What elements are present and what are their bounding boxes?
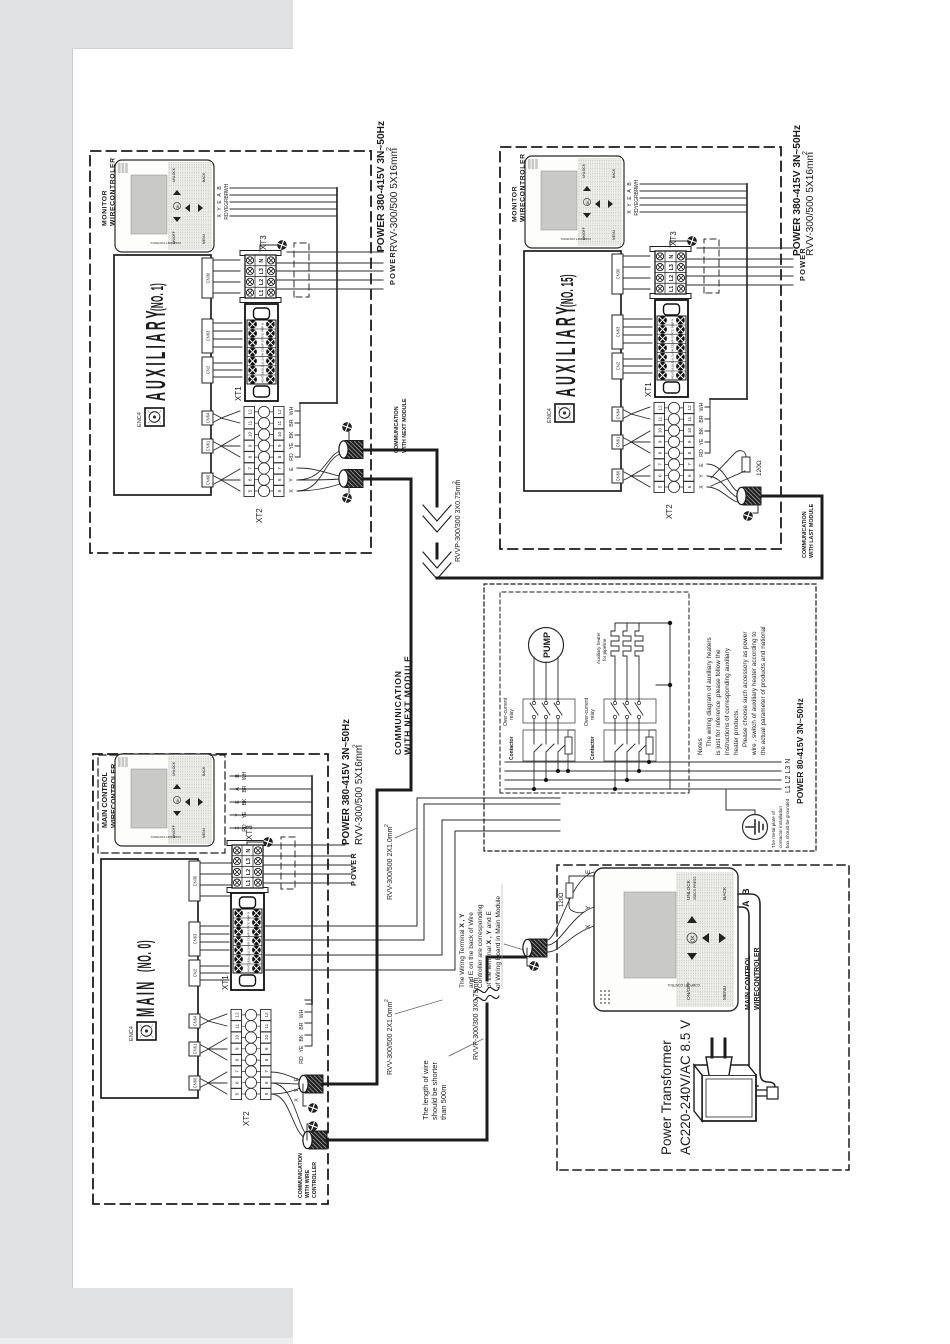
- contact circles relay 1: [532, 701, 559, 718]
- wires: A/B bus from controller to transformer: [738, 894, 775, 1088]
- svg-text:120Ω: 120Ω: [559, 892, 565, 907]
- wires: X Y E into wire controller: [548, 872, 594, 952]
- shielded comm cables W1 W2 (AUX1) with X/Y/E wires: [297, 451, 340, 491]
- svg-text:heater products.: heater products.: [733, 709, 740, 755]
- shielded comm cables W3 W4 (MAIN): [299, 1075, 323, 1093]
- earth ground symbol PE: [726, 789, 755, 814]
- svg-text:B: B: [235, 774, 241, 778]
- svg-text:BK: BK: [299, 1034, 305, 1041]
- svg-text:wire , switch of auxiliary: wire , switch of auxiliary heater accord…: [751, 631, 758, 756]
- svg-text:COMMUNICATION: COMMUNICATION: [802, 511, 808, 558]
- svg-text:POWER 380-415V 3N~50Hz: POWER 380-415V 3N~50Hz: [341, 719, 352, 845]
- svg-text:RVV-300/500 2X1.0mm: RVV-300/500 2X1.0mm: [387, 1001, 394, 1075]
- terminating resistor R1 120 ohm (AUX15): [711, 451, 763, 486]
- svg-text:120Ω: 120Ω: [756, 460, 763, 476]
- svg-text:MENU: MENU: [722, 985, 728, 1000]
- main board: [101, 859, 198, 1098]
- svg-text:2: 2: [386, 147, 393, 151]
- svg-text:and E on the back of Wire: and E on the back of Wire: [468, 912, 475, 988]
- pump motor M1: [529, 628, 564, 663]
- svg-text:is just for reference ,please: is just for reference ,please follow the: [715, 649, 722, 755]
- svg-text:Please choose such accesso: Please choose such accessory as power: [742, 631, 749, 747]
- svg-text:CONTROLLER: CONTROLLER: [312, 1162, 318, 1198]
- svg-text:X: X: [235, 826, 241, 830]
- svg-text:XT1: XT1: [221, 975, 230, 990]
- svg-text:BK: BK: [242, 798, 248, 805]
- svg-text:The Wiring Terminal X , Y: The Wiring Terminal X , Y: [459, 913, 466, 988]
- svg-text:Notes: Notes: [697, 738, 704, 755]
- outer dashed box: [484, 584, 816, 851]
- shielded comm cable W5 (AUX15) with X/Y/E wires: [707, 464, 737, 502]
- svg-text:than 500m: than 500m: [439, 1085, 448, 1120]
- svg-text:YE: YE: [242, 811, 248, 818]
- svg-text:UNLOCK: UNLOCK: [686, 879, 692, 900]
- svg-text:WITH WIRE: WITH WIRE: [305, 1169, 311, 1198]
- svg-text:A: A: [741, 900, 751, 907]
- svg-text:COMMUNICATION: COMMUNICATION: [394, 406, 400, 453]
- auxiliary unit NO.15 dashed enclosure and internals: [500, 147, 807, 549]
- ground note: [771, 798, 790, 848]
- wire: comm trunk MAIN to wire controller: [327, 957, 525, 1140]
- svg-text:POWER 380-415V 3N~50Hz: POWER 380-415V 3N~50Hz: [376, 121, 387, 252]
- svg-text:BR: BR: [242, 785, 248, 792]
- svg-text:(NO. 1): (NO. 1): [146, 283, 167, 311]
- wiring terminal note: [459, 884, 502, 988]
- svg-text:the actual parameter of prod: the actual parameter of products and nat…: [760, 626, 767, 755]
- svg-text:2: 2: [384, 824, 390, 827]
- svg-text:of Wiring Board in Main Module: of Wiring Board in Main Module: [495, 896, 502, 988]
- svg-text:CN64: CN64: [193, 1015, 198, 1026]
- wires: L1 L2 L3 N power leads from XT3 (MAIN): [263, 845, 352, 883]
- svg-text:E: E: [235, 800, 241, 804]
- svg-text:2: 2: [452, 481, 458, 484]
- cable break symbols on AUX1-AUX15 comm line: [423, 505, 451, 579]
- svg-text:WH: WH: [299, 1009, 305, 1018]
- dashed enclosure: [557, 865, 849, 1170]
- svg-text:Controller are corresponding: Controller are corresponding: [477, 904, 484, 988]
- svg-text:3SECS PRESS: 3SECS PRESS: [693, 876, 697, 900]
- svg-text:X: X: [585, 924, 592, 929]
- svg-text:OK: OK: [691, 935, 697, 943]
- svg-text:RVV-300/500 2X1.0mm: RVV-300/500 2X1.0mm: [387, 826, 394, 900]
- auxiliary heater elements EH1 EH2 EH3: [611, 627, 643, 660]
- svg-text:XT3: XT3: [245, 825, 254, 840]
- svg-text:COMFORT CONTROL: COMFORT CONTROL: [667, 983, 700, 987]
- fan wires: [200, 863, 232, 1094]
- wires: XT1 control outputs to contactor box: [264, 798, 560, 970]
- svg-text:POWER 380-415V 3N~50Hz: POWER 380-415V 3N~50Hz: [792, 125, 803, 256]
- svg-text:The metal plate of: The metal plate of: [771, 811, 776, 848]
- svg-text:Auxiliary heater: Auxiliary heater: [596, 632, 601, 664]
- svg-text:CN2: CN2: [193, 968, 198, 977]
- svg-text:COMMUNICATION: COMMUNICATION: [393, 670, 403, 755]
- remote wires to XT2: [230, 776, 312, 1046]
- svg-text:YE: YE: [299, 1045, 305, 1052]
- svg-text:Power Transformer: Power Transformer: [659, 1040, 674, 1155]
- svg-text:Contactor: Contactor: [509, 736, 515, 760]
- svg-text:E: E: [585, 869, 592, 874]
- svg-text:relay: relay: [590, 709, 596, 720]
- power transformer T1 (AC220-240V/AC 8.5V): [694, 1039, 778, 1121]
- svg-text:Y: Y: [235, 813, 241, 817]
- svg-text:RVV-300/500 5X16mm: RVV-300/500 5X16mm: [389, 148, 400, 252]
- svg-text:RVVP-300/300 3X0.75mm: RVVP-300/300 3X0.75mm: [473, 977, 480, 1060]
- svg-text:WITH LAST MODULE: WITH LAST MODULE: [809, 503, 815, 558]
- shielded comm cable W6 (wire controller): [523, 939, 547, 957]
- svg-text:CN63: CN63: [193, 933, 198, 944]
- svg-text:for pipeline: for pipeline: [602, 638, 607, 661]
- svg-text:XT2: XT2: [242, 1111, 251, 1126]
- svg-text:WITH NEXT MODULE: WITH NEXT MODULE: [403, 655, 413, 755]
- svg-text:relay: relay: [509, 709, 515, 720]
- cable break symbol on controller comm line: [475, 987, 499, 1000]
- svg-text:contactor installation: contactor installation: [778, 806, 783, 848]
- svg-text:of the terminal X , Y and E: of the terminal X , Y and E: [486, 911, 493, 988]
- wires: three-phase path through KM1/FR1 to pump: [530, 657, 566, 789]
- wire: comm trunk MAIN to AUX1: [323, 479, 411, 1084]
- svg-text:CN30: CN30: [193, 875, 198, 886]
- main unit dashed enclosure: [93, 754, 328, 1204]
- inner dashed box: [500, 592, 689, 793]
- wire: comm trunk from AUX1 cable W1 down: [364, 449, 437, 452]
- svg-text:2: 2: [384, 999, 390, 1002]
- main control wirecontroller (big): [594, 868, 738, 1011]
- power rails L1 L2 L3 N: [505, 762, 781, 789]
- svg-text:WH: WH: [242, 771, 248, 780]
- svg-text:2: 2: [352, 744, 359, 748]
- svg-text:PUMP: PUMP: [542, 632, 552, 658]
- notes text: [697, 626, 767, 756]
- auxiliary unit NO.1 dashed enclosure and internals: [90, 151, 397, 553]
- svg-text:Contactor: Contactor: [590, 736, 596, 760]
- svg-text:(NO. 15): (NO. 15): [556, 274, 577, 307]
- svg-text:RVVP-300/300 3X0.75mm: RVVP-300/300 3X0.75mm: [455, 479, 462, 562]
- svg-text:BR: BR: [299, 1022, 305, 1029]
- svg-text:(NO. 0): (NO. 0): [136, 940, 157, 972]
- svg-text:The length of wire: The length of wire: [421, 1060, 430, 1120]
- svg-text:should be shorter: should be shorter: [430, 1062, 439, 1120]
- 120 ohm resistor: [566, 883, 573, 898]
- svg-text:2: 2: [802, 151, 809, 155]
- svg-text:RVV-300/500 5X16mm: RVV-300/500 5X16mm: [805, 152, 816, 256]
- svg-text:L1 L2 L3 N: L1 L2 L3 N: [785, 759, 792, 793]
- main control wirecontroller: [115, 754, 214, 846]
- svg-text:POWER: POWER: [349, 852, 358, 886]
- svg-text:RD: RD: [299, 1056, 305, 1064]
- svg-text:ENC4: ENC4: [129, 1026, 135, 1041]
- main control wirecontroller dashed box: [98, 755, 225, 853]
- svg-text:A: A: [235, 787, 241, 791]
- svg-text:POWER 80-415V 3N~50Hz: POWER 80-415V 3N~50Hz: [795, 698, 805, 804]
- svg-text:COMMUNICATION: COMMUNICATION: [298, 1153, 304, 1198]
- svg-text:CN60: CN60: [193, 1077, 198, 1088]
- svg-text:MAIN: MAIN: [133, 979, 160, 1017]
- svg-text:Y: Y: [585, 905, 592, 910]
- terminal block XT3 (MAIN, L1 L2 L3 N): [227, 841, 268, 893]
- svg-text:CN61: CN61: [193, 1043, 198, 1054]
- wire: heater neutral connection with junctions: [615, 623, 670, 789]
- svg-text:X: X: [294, 1098, 300, 1102]
- svg-text:WITH NEXT MODULE: WITH NEXT MODULE: [402, 398, 408, 453]
- svg-text:BACK: BACK: [722, 886, 728, 900]
- svg-text:The wiring diagram of auxiliar: The wiring diagram of auxiliary heaters: [706, 637, 713, 747]
- svg-text:AC220-240V/AC 8.5 V: AC220-240V/AC 8.5 V: [678, 1020, 693, 1155]
- connectors on bottom edge of main board: [189, 861, 200, 1090]
- svg-text:instructions of corresponding: instructions of corresponding auxiliary: [724, 647, 731, 755]
- svg-text:box should be grounded: box should be grounded: [785, 798, 790, 848]
- X/Y/E wires to cables: [271, 1072, 307, 1138]
- svg-text:RVV-300/500 5X16mm: RVV-300/500 5X16mm: [354, 745, 365, 845]
- svg-text:MAIN CONTROL: MAIN CONTROL: [100, 771, 109, 828]
- wire: comm trunk AUX1 to AUX15: [437, 450, 822, 578]
- contactor coil KM1: [565, 737, 572, 754]
